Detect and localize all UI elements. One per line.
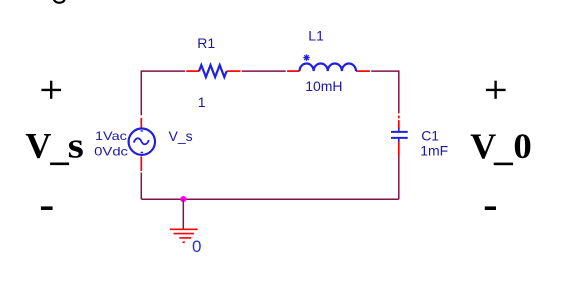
voltage source V_s pin top (red) <box>140 118 142 128</box>
annotation minus right <box>485 206 496 210</box>
resistor R1 pin left (red) <box>186 70 199 72</box>
inductor L1 pin left (red) <box>287 70 300 72</box>
svg-text:1mF: 1mF <box>420 143 448 159</box>
svg-text:0: 0 <box>192 237 201 256</box>
svg-text:s: s <box>68 125 84 165</box>
svg-text:L1: L1 <box>308 28 324 44</box>
annotation V_s big <box>25 125 83 165</box>
capacitor C1 top lead tick (blue) <box>398 128 400 132</box>
voltage source V_s pin bottom (red) <box>140 156 142 171</box>
svg-text:0Vdc: 0Vdc <box>94 145 128 159</box>
annotation V_0 big <box>470 126 532 166</box>
inductor L1 pin-1 dot marker <box>303 54 309 61</box>
svg-text:0: 0 <box>513 126 531 166</box>
voltage source V_s circle <box>129 129 155 155</box>
capacitor C1 bottom lead tick (blue) <box>398 138 400 142</box>
resistor R1 pin right (red) <box>227 70 241 72</box>
svg-text:1: 1 <box>198 94 206 110</box>
svg-text:V_s: V_s <box>169 128 193 144</box>
voltage source sine symbol <box>134 138 149 144</box>
wire top rail between resistor and inductor <box>242 70 286 72</box>
inductor L1 pin right (red) <box>356 70 370 72</box>
wire top rail right segment with corner down to capacitor <box>371 71 399 113</box>
ground symbol bars <box>170 229 198 242</box>
annotation minus left <box>41 206 53 210</box>
wire source bottom to rail <box>140 173 142 200</box>
annotation plus right <box>486 81 506 99</box>
svg-text:R1: R1 <box>197 35 215 51</box>
resistor R1 body <box>199 65 227 77</box>
annotation plus left <box>41 81 61 99</box>
capacitor C1 bottom plate <box>391 137 408 139</box>
voltage source pin end dashes <box>141 130 143 132</box>
svg-text:10mH: 10mH <box>305 78 342 94</box>
svg-text:C1: C1 <box>421 127 439 143</box>
capacitor C1 top plate <box>391 131 408 133</box>
wire capacitor bottom to rail <box>398 156 400 200</box>
svg-text:V: V <box>25 125 51 165</box>
capacitor C1 pin bottom (red) <box>398 142 400 156</box>
wire bottom rail <box>141 198 399 200</box>
wire top rail left segment <box>141 71 185 115</box>
ground stem wire <box>182 199 184 229</box>
cropped caption glyph fragment (bottom of a letter) at top edge <box>54 0 65 3</box>
inductor L1 body <box>300 64 356 72</box>
capacitor C1 pin top (red) <box>398 116 400 119</box>
svg-text:V: V <box>470 126 496 166</box>
junction node dot <box>180 196 186 202</box>
svg-text:1Vac: 1Vac <box>95 129 127 143</box>
